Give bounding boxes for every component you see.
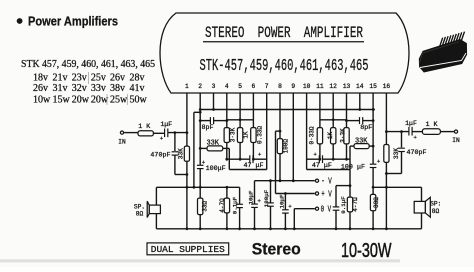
node pin15 8pF junction [372,119,375,122]
node pin12 tie [332,118,335,121]
junction ground bus [253,227,256,230]
node bypass speaker bus [193,186,196,189]
svg-text:100μF: 100μF [263,189,270,207]
resistor 1K right [422,129,440,135]
capacitor 47uF right [318,155,320,163]
wire pin11 lower lead [319,144,321,159]
resistor 33K vertical right [384,145,389,163]
input terminal IN right [454,130,457,133]
speaker SP 8ohm right [414,201,425,213]
wire [254,207,256,228]
svg-text:STK 457, 459, 460, 461, 463, 4: STK 457, 459, 460, 461, 463, 465 [21,59,155,70]
wire pin10 column [306,93,308,170]
speaker SP 8ohm left [149,205,160,214]
wire right connector vertical [349,146,351,169]
terminal +V [315,192,318,195]
svg-text:4-7Ω: 4-7Ω [219,198,226,213]
junction ground bus [269,227,272,230]
resistor 33K horizontal right [354,144,369,149]
svg-text:+: + [160,135,163,142]
wire to pin1 [168,132,187,134]
junction top bus [372,108,375,111]
resistor 1K left pin5 [237,128,242,143]
node [226,186,229,189]
node 10uF tap [284,192,287,195]
svg-text:1μF: 1μF [405,120,417,127]
wire [284,213,286,229]
node feedback junction left [186,173,189,176]
wire 47uF to pin7 [253,158,267,160]
junction ground bus [335,227,338,230]
svg-text:DUAL SUPPLIES: DUAL SUPPLIES [151,245,225,255]
wire 8pF right [347,120,360,122]
node stub [349,184,352,187]
wire pin11 column [319,93,321,128]
svg-text:10-30W: 10-30W [341,240,392,262]
node 470pF tap right [400,130,403,133]
resistor 1K left [138,131,153,136]
svg-text:1K: 1K [242,131,249,139]
node [332,158,335,161]
svg-text:33Ω: 33Ω [373,197,380,208]
wire 33K to pin15 [369,145,373,147]
wire 470pF branch upper [174,133,176,151]
svg-text:3·3K: 3·3K [230,127,237,142]
resistor 4.7ohm left [224,198,229,213]
resistor 0&#183;33&#937; right pin11 [317,128,322,144]
wire pin14 column [359,93,361,110]
wire resistor tie left [227,119,254,121]
scan line bottom [0,259,400,262]
svg-text:33K: 33K [178,148,185,159]
resistor 4.7ohm right [347,197,352,212]
terminal 0V [315,207,318,210]
capacitor 8pF left [209,117,211,124]
wire pin13 column [346,93,348,128]
wire pin8 column [279,93,281,139]
wire 0.1uF stub right [336,185,350,187]
wire pin9 column [292,93,294,181]
svg-text:+: + [414,134,417,141]
node pin16 speaker bus [385,186,388,189]
junction ground bus [199,227,202,230]
wire speaker bottom lead left [155,214,157,229]
capacitor 100uF left [197,164,204,166]
wire 0.1uF to ground [239,208,241,229]
capacitor 470pF right [398,147,405,149]
wire lower tie left [229,169,266,171]
wire pin3 column [213,93,215,110]
wire pin2 jog [194,111,200,113]
wire pin12 column [332,93,334,128]
junction top bus [358,108,361,111]
resistor 33K horizontal left [207,146,223,151]
wire pin12 lower lead [332,144,334,159]
svg-text:0.1μF: 0.1μF [340,196,347,214]
node pin15 33K [372,145,375,148]
wire pin6 lower lead [252,143,254,160]
svg-text:STEREO POWER AMPLIFIER: STEREO POWER AMPLIFIER [205,24,363,42]
svg-text:8pF: 8pF [201,124,213,132]
capacitor 0.1uF left [236,203,243,205]
wire 0V rail [294,208,315,210]
wire 470pF to 33K bottom [175,174,187,176]
resistor 33ohm right [370,194,375,210]
wire pin15 column lower [372,168,374,195]
svg-text:1 K: 1 K [425,121,437,129]
node [319,158,322,161]
wire pin16 column [385,93,387,145]
wire pin5 lower lead [239,143,241,160]
svg-text:8Ω: 8Ω [136,211,144,218]
wire pin1 column to ground bus [186,161,188,229]
node input/470pF junction [174,131,177,134]
svg-text:8pF: 8pF [360,124,372,132]
wire pin2 bypass down [193,112,195,187]
node [239,158,242,161]
node speaker bus 33ohm [199,186,202,189]
svg-text:8Ω: 8Ω [432,208,440,215]
node pin16 input junction [385,130,388,133]
resistor 33ohm left [198,198,203,215]
junction ground bus [186,227,189,230]
svg-text:470pF: 470pF [407,149,427,157]
resistor 33K vertical left [184,146,189,161]
wire 47uF row right [307,158,320,160]
capacitor 10uF 2 [282,209,289,211]
wire pin16 column to ground [385,162,387,228]
wire speaker bus right [373,186,421,188]
wire pin8 jog [276,130,281,132]
svg-text:0·33Ω: 0·33Ω [309,126,316,144]
resistor 0.33&#937; left pin6 [251,128,256,143]
wire right input [386,131,408,133]
wire 100ohm to -V rail [279,154,281,181]
svg-text:- V: - V [321,176,332,186]
junction ground bus [372,227,375,230]
node 8pF wire pin2 [199,119,202,122]
node [345,158,348,161]
wire 470pF branch lower [174,155,176,174]
svg-text:SP:: SP: [430,200,441,207]
wire 8pF left [200,120,210,122]
node [225,158,228,161]
svg-text:0.33Ω: 0.33Ω [257,126,264,144]
table column separators [88,72,90,84]
node pin5 tie [239,118,242,121]
wire pin4 column [226,93,228,128]
wire lower tie right [307,169,350,171]
wire top bus [200,109,376,111]
wire pin7 column [266,93,268,170]
wire 8pF to pin4 [214,120,227,122]
wire [270,206,272,229]
wire pin6 column [252,93,254,128]
wire right connector to 4.7ohm [349,170,351,198]
svg-text:10w15w20w20w25w50w: 10w15w20w20w25w50w [33,95,148,106]
wire -V rail [255,180,315,182]
svg-text:0 V: 0 V [321,204,332,214]
svg-text:1μF: 1μF [160,121,172,128]
bullet [17,18,23,24]
svg-text:1 K: 1 K [138,123,150,131]
capacitor 100uF right [370,163,377,165]
wire pin15 column upper [372,93,374,164]
wire 33K horiz right lead [223,147,230,149]
wire resistor tie right [320,119,347,121]
junction top bus [212,108,215,111]
svg-text:+: + [258,198,261,205]
node feedback junction right [385,172,388,175]
svg-text:33K: 33K [355,137,368,145]
svg-text:IN: IN [118,139,126,146]
wire 470pF to 33K bottom right [386,173,401,175]
capacitor 8pF right [359,117,361,124]
wire [323,158,351,160]
capacitor 100uF 2 [267,202,274,204]
svg-text:Stereo: Stereo [252,240,301,259]
svg-text:3·3K: 3·3K [340,128,347,143]
wire 4.7ohm top lead left [226,187,228,198]
svg-text:100Ω: 100Ω [283,139,290,154]
capacitor 0.1uF right [333,206,340,208]
wire [335,210,337,229]
wire 470pF branch right upper [401,132,403,148]
svg-text:10μF: 10μF [247,190,254,204]
node 33K wire pin2 [199,147,202,150]
wire left connector vertical [228,148,230,169]
wire pin2 column lower [199,169,201,199]
junction ground bus [284,227,287,230]
svg-text:+: + [377,158,380,165]
node pin4 8pF junction [225,119,228,122]
svg-text:IN: IN [452,137,460,144]
wire ground bus [156,228,421,230]
wire 10uF branch 1 [254,181,256,204]
node [292,179,295,182]
wire [153,132,164,134]
svg-text:SP.: SP. [134,203,145,210]
wire speaker top lead right [421,187,423,202]
wire 33ohm to ground [199,215,201,229]
title underline [203,41,364,43]
wire pin13 lower lead [346,144,348,159]
wire 4.7ohm to ground [226,213,228,229]
junction top bus [199,108,202,111]
svg-text:10μF: 10μF [279,194,286,208]
capacitor 47uF left [249,155,251,163]
svg-text:1K: 1K [327,132,334,140]
wire 47uF row left [227,158,250,160]
resistor 3&#183;3K left pin4 [224,128,229,143]
wire 33K horiz left lead [200,147,207,149]
node [252,158,255,161]
node pin1 junction [186,131,189,134]
IC package illustration [419,32,466,72]
junction ground bus [385,227,388,230]
junction ground bus [293,227,296,230]
wire +V rail [276,193,315,195]
wire pin4 lower lead [226,143,228,160]
capacitor 1uF right [408,127,410,136]
capacitor 470pF left [172,151,179,153]
junction ground bus [238,227,241,230]
svg-text:100μF: 100μF [206,165,226,173]
svg-text:33Ω: 33Ω [202,201,209,212]
wire 4.7ohm to ground right [349,212,351,229]
node pin13 8pF [345,119,348,122]
svg-text:STK-457,459,460,461,463,465: STK-457,459,460,461,463,465 [200,57,369,76]
wire [412,131,422,133]
svg-text:33K: 33K [206,140,219,148]
svg-text:0.1μF: 0.1μF [232,196,239,214]
wire 0.1uF branch right [335,186,337,207]
node [279,179,282,182]
wire pin1 column [186,93,188,146]
node 100uF tap [269,179,272,182]
svg-text:+: + [258,151,261,158]
capacitor 10uF 1 [251,203,258,205]
junction ground bus [226,227,229,230]
wire 33K horiz left lead right [350,145,354,147]
wire [440,131,454,133]
wire 470pF branch right lower [401,152,403,174]
wire 33ohm right to ground [372,211,374,229]
node pin8 jog [279,130,282,133]
junction ground bus [349,227,352,230]
svg-text:Power Amplifiers: Power Amplifiers [28,14,118,29]
wire 100uF branch 2 [270,181,272,203]
svg-text:100 μF: 100 μF [341,164,365,172]
svg-text:4-7Ω: 4-7Ω [352,197,359,212]
svg-text:+ V: + V [321,189,332,199]
resistor 3&#183;3K right pin13 [344,128,349,144]
node pin1 speaker bus [186,186,189,189]
resistor 1K right pin12 [331,128,336,144]
op-amp U1 STK module outline [160,13,409,93]
svg-text:470pF: 470pF [150,151,170,159]
wire speaker bus left [156,186,239,188]
svg-text:33K: 33K [393,148,400,159]
wire speaker top lead left [155,187,157,205]
wire pin5 column [239,93,241,128]
node pin15 speaker bus [372,186,375,189]
terminal -V [315,179,318,182]
wire pin2 column upper [199,93,201,165]
wire 0.1uF top lead left [239,187,241,204]
wire 8pF to pin15 [363,120,373,122]
caption box DUAL SUPPLIES [147,243,229,255]
wire speaker bottom lead right [421,213,423,229]
input terminal IN left [120,131,123,134]
resistor 100ohm [277,139,282,154]
wire 10uF branch 2 [284,194,286,210]
svg-text:+: + [314,151,317,158]
wire input left [124,132,138,134]
svg-text:+: + [288,203,291,210]
node pin2 jog [199,111,202,114]
wire 0V down to ground [293,209,295,229]
wire pin8 bypass down [275,131,277,193]
capacitor 1uF left [164,129,166,138]
